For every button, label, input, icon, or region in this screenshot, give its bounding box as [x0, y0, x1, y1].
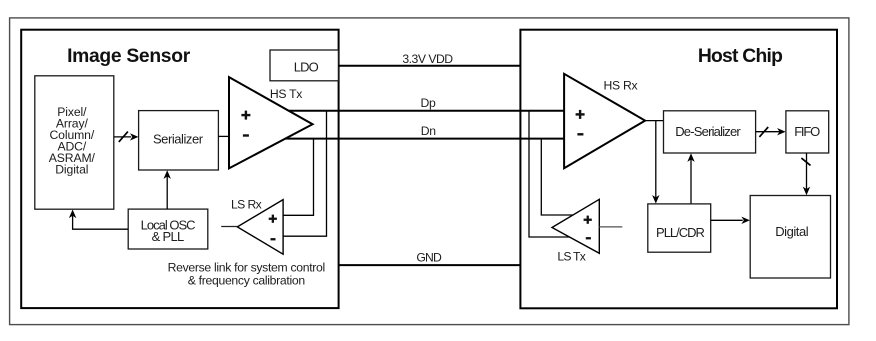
block Host Chip (chip outline) [520, 30, 837, 309]
svg-text:LDO: LDO [294, 60, 319, 75]
wire 3.3V VDD [338, 65, 520, 67]
svg-text:De-Serializer: De-Serializer [675, 124, 741, 139]
svg-text:HS Tx: HS Tx [270, 87, 302, 101]
svg-text:PLL/CDR: PLL/CDR [656, 225, 705, 240]
wire: Serializer to HS Tx [218, 135, 229, 137]
wire: FIFO to Digital (bus, arrow down) [801, 153, 810, 195]
amplifier HS Tx [229, 77, 313, 168]
wire: LS Tx input stub [599, 226, 622, 228]
wire: HS Rx output to De-Serializer [645, 120, 663, 122]
block: Pixel/Array/Column/ADC/ASRAM/Digital [35, 76, 114, 209]
wire: PLL/CDR to De-Serializer (arrow up) [687, 153, 694, 204]
svg-text:Image Sensor: Image Sensor [67, 46, 191, 67]
svg-text:Digital: Digital [55, 162, 88, 176]
wire: LS Rx output stub [221, 226, 237, 228]
svg-text:Dn: Dn [421, 124, 436, 138]
svg-text:Host Chip: Host Chip [698, 46, 782, 67]
wire GND [338, 264, 520, 266]
svg-text:& PLL: & PLL [152, 229, 184, 244]
svg-text:Serializer: Serializer [153, 131, 204, 146]
wire: Dn to LS Tx upper output [541, 139, 573, 215]
note: reverse link caption [168, 260, 325, 287]
block Image Sensor (chip outline) [21, 30, 338, 308]
svg-text:Digital: Digital [775, 224, 809, 239]
wire Dn [285, 138, 564, 140]
svg-text:Dp: Dp [421, 96, 437, 110]
wire: Dp to LS Rx - input [283, 111, 326, 236]
wire Dp [289, 110, 564, 112]
wire: HS Rx output down to PLL/CDR (arrow down) [652, 121, 659, 204]
amplifier LS Rx [237, 200, 283, 255]
svg-text:& frequency calibration: & frequency calibration [188, 274, 305, 288]
wire: PLL/CDR to Digital (arrow right) [711, 217, 750, 224]
wire: Pixel block to Serializer (bus) [114, 132, 139, 142]
block PLL/CDR [648, 204, 711, 252]
svg-text:LS Rx: LS Rx [231, 197, 262, 211]
block Digital [750, 196, 830, 279]
svg-text:Reverse link for system contro: Reverse link for system control [168, 260, 325, 274]
svg-text:GND: GND [416, 250, 442, 264]
svg-text:HS Rx: HS Rx [604, 79, 638, 93]
wire: Dp to LS Tx lower output [529, 111, 569, 237]
amplifier LS Tx [552, 199, 599, 253]
wire: Dn to LS Rx + input [283, 139, 313, 216]
wire: Local OSC to Serializer (clock, arrow up) [164, 170, 171, 209]
svg-text:FIFO: FIFO [794, 124, 820, 139]
wire: Local OSC to Pixel block (arrow up) [69, 210, 128, 230]
wire: De-Serializer to FIFO (bus, arrow right) [756, 127, 786, 137]
amplifier HS Rx [564, 74, 645, 168]
block Local OSC & PLL [128, 209, 208, 249]
block De-Serializer [664, 111, 756, 153]
svg-text:3.3V VDD: 3.3V VDD [402, 52, 453, 66]
svg-text:LS Tx: LS Tx [557, 250, 585, 264]
block LDO [270, 50, 338, 81]
block FIFO [786, 111, 829, 153]
block Serializer [139, 111, 219, 170]
